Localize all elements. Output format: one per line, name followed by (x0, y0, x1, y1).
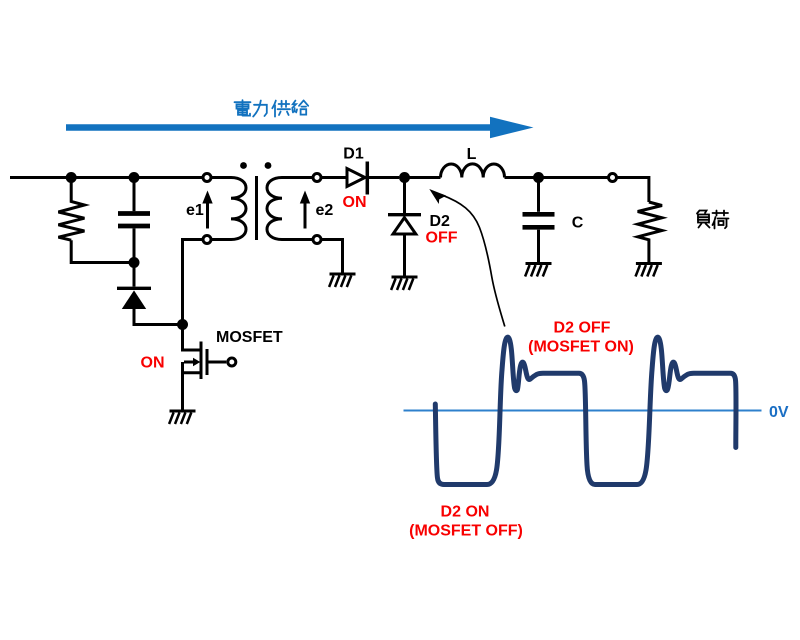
terminal circles (203, 174, 617, 367)
svg-text:C: C (572, 215, 584, 232)
wire L to C node (505, 176, 609, 179)
terminal secondary bottom (313, 236, 321, 244)
供 (272, 101, 290, 117)
svg-text:L: L (467, 146, 477, 163)
terminal primary bottom (203, 236, 211, 244)
ground (secondary) (329, 274, 355, 287)
diode D2 (outline, pointing up) (388, 178, 421, 276)
svg-text:(MOSFET OFF): (MOSFET OFF) (409, 523, 523, 540)
wire node D2 to L (405, 176, 441, 179)
svg-text:ON: ON (141, 355, 165, 372)
svg-text:MOSFET: MOSFET (216, 329, 283, 346)
ground (load) (636, 264, 662, 277)
node dot input C (129, 172, 140, 183)
svg-text:0V: 0V (769, 404, 789, 421)
terminal secondary top (313, 174, 321, 182)
node dot clamp/drain (177, 319, 188, 330)
node dot D2 (399, 172, 410, 183)
電 (235, 100, 251, 115)
transformer polarity dot primary (240, 162, 247, 169)
label 負荷 (load) (697, 211, 729, 229)
svg-text:ON: ON (343, 194, 367, 211)
wire secondary bottom to ground (321, 240, 343, 273)
labels red (141, 194, 634, 540)
ground (C output) (525, 264, 551, 277)
node dot C output (533, 172, 544, 183)
svg-text:D2 ON: D2 ON (441, 504, 490, 521)
wire C bottom to clamp diode (133, 263, 136, 287)
resistor load (638, 202, 662, 262)
labels black (186, 146, 584, 347)
0V reference line (light blue) (404, 410, 762, 412)
junction dots (66, 162, 544, 330)
inductor L (441, 164, 505, 178)
terminal primary top (203, 174, 211, 182)
svg-text:e1: e1 (186, 202, 204, 219)
wire R bottom to C bottom (71, 240, 134, 262)
power-flow arrow (blue) (66, 117, 534, 138)
負 (697, 211, 710, 228)
label 電力供給 (power supply) (235, 100, 309, 116)
MOSFET source arrow head (193, 358, 200, 367)
wire output terminal to load (617, 178, 649, 203)
wire input bus (10, 176, 204, 179)
waveform (navy) (435, 337, 736, 484)
capacitor C output (523, 178, 555, 263)
terminal MOSFET gate (228, 358, 236, 366)
ground (D2) (391, 277, 417, 290)
transformer core (255, 176, 258, 240)
力 (253, 101, 267, 117)
MOSFET Q1 (183, 342, 227, 410)
transformer secondary winding (267, 178, 313, 240)
capacitor C input (118, 178, 150, 263)
svg-text:D2 OFF: D2 OFF (554, 320, 611, 337)
curved annotation arrow (429, 189, 505, 327)
svg-text:D2: D2 (430, 213, 451, 230)
transformer primary winding (211, 178, 246, 240)
svg-text:(MOSFET ON): (MOSFET ON) (528, 339, 634, 356)
terminal output (609, 174, 617, 182)
e2 arrow (300, 191, 310, 229)
荷 (713, 211, 729, 229)
resistor R input (58, 178, 84, 241)
diode clamp (filled, cathode bar up) (117, 288, 181, 324)
svg-text:D1: D1 (343, 146, 364, 163)
wire primary bottom to MOSFET drain (183, 240, 204, 351)
transformer polarity dot secondary (265, 162, 272, 169)
svg-text:e2: e2 (316, 202, 334, 219)
node dot RC bottom (129, 257, 140, 268)
ground (MOSFET source) (169, 411, 195, 424)
node dot input R (66, 172, 77, 183)
main circuit (10, 162, 662, 410)
給 (292, 100, 308, 114)
svg-text:OFF: OFF (426, 230, 458, 247)
wire secondary top to D1 (321, 176, 346, 179)
diode D1 (outline, pointing right) (347, 162, 399, 195)
e1 arrow (202, 191, 212, 229)
